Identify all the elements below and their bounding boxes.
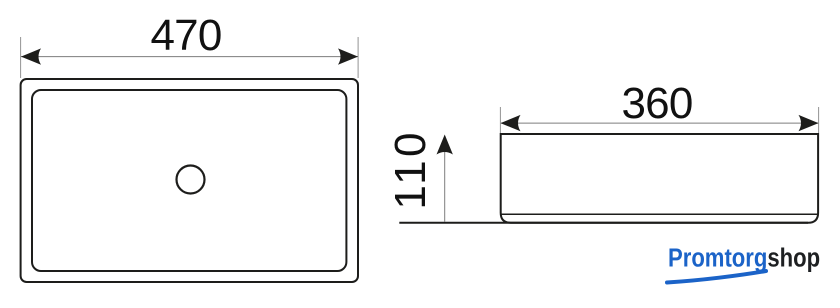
extension line right (470): [357, 37, 359, 78]
ground line: [399, 222, 808, 224]
arrowhead left of 470: [21, 48, 41, 64]
arrowhead left of 360: [501, 115, 521, 131]
arrowhead right of 360: [799, 115, 819, 131]
svg-text:470: 470: [150, 11, 221, 60]
dimension line 470: [21, 56, 358, 58]
extension line left (470): [20, 37, 22, 78]
arrowhead right of 470: [338, 48, 358, 64]
svg-text:Promtorgshop: Promtorgshop: [668, 244, 820, 273]
side view base rim line: [501, 213, 818, 215]
top view: outer basin outline: [21, 79, 358, 282]
extension line right (360): [818, 107, 820, 133]
drain hole circle: [177, 166, 205, 194]
logo swoosh: [667, 271, 766, 283]
dimension line 360: [501, 122, 818, 124]
vertical dimension line 110: [444, 136, 446, 222]
side view body: [501, 134, 818, 223]
top view: inner basin rim: [32, 90, 346, 271]
svg-text:110: 110: [386, 129, 435, 210]
arrowhead up of 110: [437, 135, 453, 155]
extension line left (360): [499, 107, 501, 133]
svg-text:360: 360: [621, 79, 692, 128]
